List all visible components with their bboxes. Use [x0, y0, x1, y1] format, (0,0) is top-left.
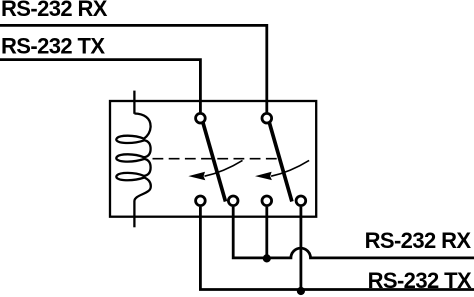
svg-text:RS-232 TX: RS-232 TX [368, 268, 472, 293]
junction dot RX output node [263, 254, 271, 262]
wire S2 NC contact down to RX output line [265, 207, 268, 258]
wire S1 NC contact to RS-232 TX output [200, 207, 474, 290]
switch S1 actuation arrow head [188, 172, 205, 181]
switch S2 normally-closed contact [262, 196, 272, 206]
dashed mechanical linkage [153, 158, 278, 160]
svg-text:RS-232 RX: RS-232 RX [365, 228, 472, 253]
svg-text:RS-232 RX: RS-232 RX [1, 0, 108, 21]
switch S2 movable arm [269, 123, 292, 202]
switch S2 actuation arrow head [255, 172, 272, 180]
relay coil K1 top lead [133, 91, 135, 114]
wire S2 common terminal lead [266, 101, 268, 112]
switch S1 normally-closed contact [196, 196, 206, 206]
switch S1 common terminal [196, 113, 206, 123]
svg-text:RS-232 TX: RS-232 TX [1, 33, 105, 58]
relay coil K1 bottom lead [133, 201, 135, 228]
switch S1 actuation arrow curve [205, 160, 243, 176]
wire S1 bottom contact to RS-232 RX output with hop over S2 wire [233, 207, 474, 258]
wire S1 common terminal lead [199, 101, 201, 112]
wire RS-232 RX input line to S2 common [0, 25, 267, 112]
switch S1 movable arm [203, 123, 226, 202]
switch S2 actuation arrow curve [271, 160, 309, 176]
switch S2 common-side bottom contact [296, 196, 306, 206]
relay K1 body outline [110, 101, 316, 217]
switch S1 common-side bottom contact [228, 196, 238, 206]
switch S2 common terminal [262, 113, 272, 123]
wire S2 bottom contact down to TX output line [299, 207, 302, 291]
relay coil K1 winding [116, 114, 150, 202]
wire RS-232 TX input line to S1 common [0, 60, 200, 113]
junction dot TX output node [297, 287, 305, 295]
